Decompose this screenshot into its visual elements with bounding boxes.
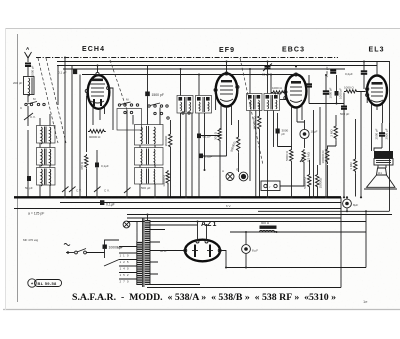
- capacitor 0.1uF screen: [58, 70, 77, 75]
- resistor 470 ohm vertical: [80, 154, 88, 197]
- wire vertical x58: [57, 66, 59, 106]
- wire EBC3 grid cap drop: [295, 73, 297, 75]
- wire bus 4: [82, 74, 296, 76]
- wire EF9 cathode connector: [201, 132, 227, 156]
- rectifier tube AZ1 envelope: [184, 240, 221, 262]
- switch extra contacts row2: [124, 111, 190, 119]
- page top edge: [5, 28, 400, 30]
- wire IFT2 drops: [250, 69, 274, 197]
- capacitor 1000 uF square: [335, 75, 343, 104]
- wire left coil col verticals: [28, 114, 50, 197]
- scan noise overlay: [0, 0, 1, 1]
- wire gang dashed mid: [110, 60, 127, 110]
- coil osc3 pair: [135, 168, 164, 185]
- capacitor 1000 pF vert: [323, 75, 333, 104]
- wire bus lower a: [60, 202, 341, 204]
- page bottom edge: [3, 309, 400, 311]
- capacitor 3000 pF: [276, 113, 289, 147]
- tube EBC3 envelope: [284, 73, 307, 108]
- wire gang dashed right: [240, 58, 263, 165]
- wire det verticals: [310, 104, 327, 197]
- wire heater line 1: [14, 208, 341, 210]
- capacitor 2500 pF: [375, 123, 386, 148]
- wire B+ box bottom: [230, 231, 366, 233]
- wire AZ1 left pin: [149, 250, 184, 252]
- switch S1c contacts: [148, 103, 168, 107]
- capacitor 0.1uF on bus: [100, 200, 115, 206]
- wire vertical x72: [71, 66, 73, 197]
- wire heater line 2: [127, 214, 392, 216]
- transformer top connections: [137, 215, 148, 242]
- wire EBC3 pins down: [280, 94, 302, 148]
- wire ECH4 grid cap drop: [97, 66, 99, 73]
- resistor 90000 ohm horizontal: [88, 130, 106, 140]
- switch S1b contacts: [118, 98, 138, 107]
- capacitor 1000pF antenna: [25, 64, 35, 77]
- wire EBC3 detector connectors: [278, 122, 305, 186]
- wire mains riser: [105, 240, 120, 258]
- IF transformer 2 secondary: [264, 94, 280, 111]
- wire vertical x65: [64, 58, 66, 197]
- coil T2 pair: [37, 148, 56, 166]
- switch S1a contacts: [20, 97, 45, 110]
- wire output B+ right: [374, 123, 390, 151]
- voltage selector labels: [120, 254, 129, 284]
- wire IFT1 drops to bus: [181, 69, 205, 197]
- resistor 5000 ohm vertical: [285, 148, 293, 197]
- wire vertical x86: [86, 96, 88, 152]
- wire transformer taps right: [150, 225, 200, 285]
- capacitor 0.2 uF: [345, 62, 367, 90]
- wire bottom left return: [147, 197, 341, 287]
- wire AZ1 anode drops: [198, 222, 207, 241]
- potentiometer 0.5 Mohm volume: [300, 149, 311, 181]
- capacitor 1500 pF vert left: [325, 66, 336, 77]
- resistor 1 Mohm: [349, 119, 357, 197]
- wire antenna coil to band switch: [27, 95, 29, 103]
- resistor 25000 ohm det2: [316, 173, 323, 188]
- resistor 100000 ohm af: [321, 146, 336, 197]
- mains switch: [64, 244, 105, 254]
- selector arm: [104, 260, 119, 267]
- pilot lamp cross: [222, 168, 239, 181]
- electrolytic 10uF: [300, 120, 318, 148]
- transformer core: [143, 218, 144, 287]
- wire ECH4 pins down: [87, 93, 105, 125]
- wire detector row link: [309, 103, 344, 105]
- trimmer 30 pF: [262, 62, 272, 94]
- capacitor 10000 pF mains: [103, 245, 123, 253]
- antenna A: [25, 46, 32, 62]
- transformer primary winding: [137, 241, 142, 285]
- resistor 300 ohm vertical: [214, 128, 222, 197]
- resistor 100000 ohm vertical: [253, 103, 262, 197]
- wire osc verticals: [127, 108, 171, 197]
- wire EL3 pins down: [361, 91, 383, 197]
- coil osc2 pair: [135, 148, 164, 166]
- wire transformer taps left: [119, 247, 137, 280]
- resistor 2 Mohm: [330, 115, 338, 146]
- ground bus thick: [14, 196, 341, 198]
- wire ECH4 right pin: [108, 88, 113, 130]
- capacitor 0.1uF EF9 screen: [199, 154, 212, 159]
- wire EL3 grid drop: [376, 62, 378, 76]
- coil osc1 pair: [135, 125, 164, 146]
- coil T1 pair: [37, 126, 56, 144]
- tube EF9 envelope: [214, 72, 239, 107]
- op-amp U1 ECH4 tube envelope: [85, 72, 110, 108]
- wire bus 3: [63, 68, 345, 70]
- capacitor 0.1uF EF9 cathode: [197, 134, 211, 139]
- wire EF9 grid cap drop: [226, 62, 228, 72]
- tube EL3 envelope: [366, 76, 387, 106]
- resistor 50000 ohm det: [303, 173, 311, 189]
- IF transformer 1 primary: [177, 96, 193, 114]
- resistor 1000 ohm to EBC3: [271, 86, 285, 94]
- trimmer arrows C.V. row: [62, 187, 110, 193]
- phono input box: [261, 181, 280, 191]
- coil T3 pair: [37, 168, 56, 186]
- dial lamp dark: [239, 172, 248, 181]
- resistor 10000 ohm vertical: [162, 170, 170, 187]
- output transformer block: [374, 151, 393, 165]
- wire EF9 pins: [216, 89, 238, 132]
- wire gang dashed left b: [46, 58, 66, 143]
- wire box return bottom: [226, 267, 366, 269]
- IF transformer 1 secondary: [196, 96, 212, 114]
- trimmer arrow osc: [124, 188, 131, 194]
- resistor 90000 ohm EF9 screen: [230, 120, 240, 172]
- wire box right vertical: [365, 211, 367, 267]
- electrolytic 8uF psu mid: [242, 232, 259, 268]
- shield box oscillator switch: [117, 109, 142, 131]
- resistor 1000 ohm grid EL3: [344, 86, 366, 93]
- wire bus 2: [57, 65, 377, 67]
- wire vertical x80: [79, 75, 81, 197]
- wire HT bus top: [57, 62, 390, 212]
- capacitor 1000 pF agc: [306, 75, 312, 104]
- page left edge: [5, 28, 7, 310]
- capacitor 500 pF: [340, 93, 350, 197]
- schematic left border line: [17, 34, 19, 302]
- trimmer C.V. left: [24, 106, 33, 126]
- capacitor 50pF black square: [27, 176, 31, 181]
- pilot lamp transformer: [117, 221, 130, 249]
- electrolytic 8uF psu right: [343, 197, 359, 211]
- loudspeaker cone: [364, 166, 397, 190]
- wire heater line 4: [127, 221, 366, 223]
- wire gang dashed left a: [38, 58, 58, 143]
- wire AZ1 cathode right: [221, 251, 226, 268]
- choke 900 ohm: [260, 221, 277, 232]
- wire heater line 3: [127, 217, 341, 219]
- antenna coil L1: [24, 77, 35, 96]
- wire dash-dot AVC line: [36, 57, 338, 59]
- wire B+ box top: [258, 210, 390, 212]
- IF transformer 2 primary: [247, 94, 263, 111]
- stamp oval logo: [28, 279, 62, 287]
- resistor 90000 ohm vertical osc: [164, 132, 172, 149]
- capacitor 0.1uF cathode: [95, 150, 109, 197]
- transformer secondary winding: [145, 220, 150, 285]
- capacitor 1500 pF padder: [145, 66, 164, 125]
